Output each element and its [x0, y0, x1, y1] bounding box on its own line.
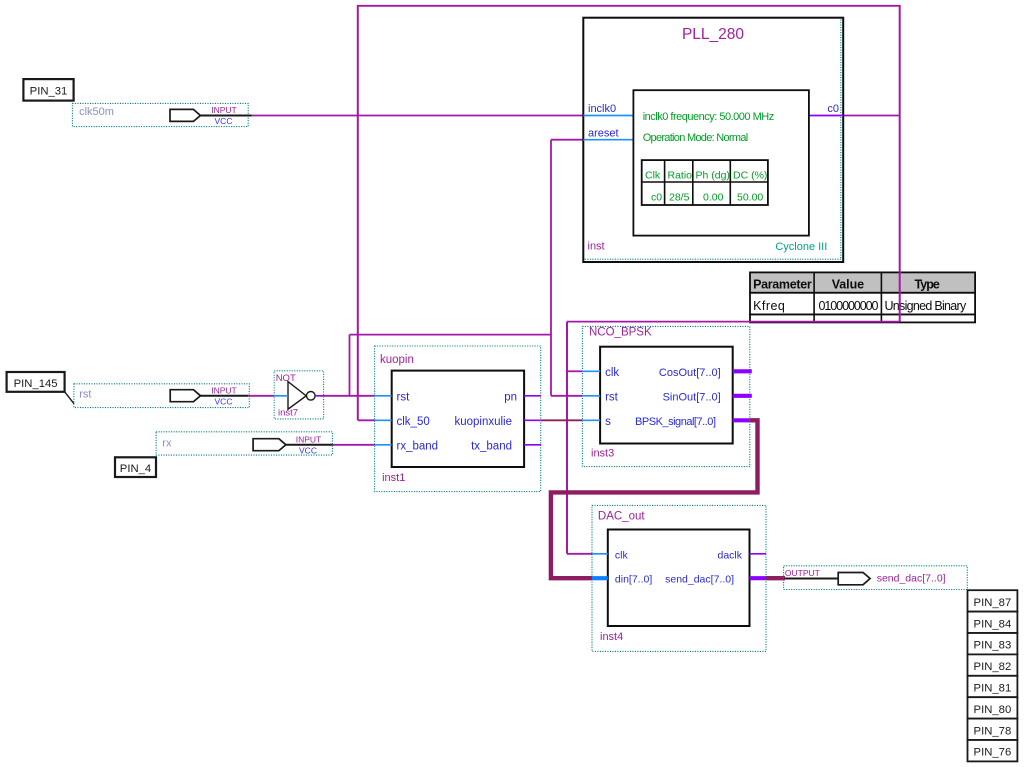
wire branch to DAC clk [567, 553, 592, 555]
svg-text:inclk0 frequency: 50.000 MHz: inclk0 frequency: 50.000 MHz [643, 111, 775, 123]
svg-text:Cyclone III: Cyclone III [775, 241, 827, 253]
wire kuopinxulie to NCO s [541, 419, 582, 421]
kuopin block U1 [380, 354, 524, 484]
svg-text:clk: clk [605, 367, 619, 379]
svg-text:inclk0: inclk0 [588, 103, 616, 115]
svg-text:Unsigned Binary: Unsigned Binary [885, 299, 967, 313]
svg-text:0100000000: 0100000000 [819, 299, 879, 313]
kuopin pin pn [524, 395, 541, 397]
kuopin pin tx_band [524, 444, 541, 446]
wire rst vertical to areset [550, 140, 552, 396]
kuopin pin rst [375, 395, 392, 397]
svg-text:s: s [605, 416, 611, 428]
PLL selection dotted edge [585, 20, 842, 260]
pin box PIN_81 [968, 676, 1018, 697]
NCO pin rst [582, 395, 600, 397]
svg-text:rst: rst [605, 391, 619, 403]
svg-text:50.00: 50.00 [737, 192, 763, 204]
svg-text:tx_band: tx_band [471, 440, 512, 452]
bus BPSK_signal to DAC din [551, 420, 758, 578]
svg-text:Parameter: Parameter [753, 277, 812, 291]
svg-text:OUTPUT: OUTPUT [785, 568, 820, 578]
svg-text:din[7..0]: din[7..0] [615, 574, 652, 586]
wire net c0 right vertical [899, 5, 901, 322]
svg-text:PIN_80: PIN_80 [974, 704, 1012, 716]
svg-text:inst: inst [588, 241, 605, 253]
input port rx [156, 432, 332, 456]
kuopin pin clk_50 [375, 419, 392, 421]
NOT gate U7 [276, 373, 315, 419]
wire rst branch horizontal [350, 334, 552, 336]
svg-text:Clk: Clk [645, 170, 661, 182]
svg-text:DC (%): DC (%) [733, 170, 767, 182]
NCO pin s [582, 419, 600, 421]
wire c0 clock vertical to DAC [566, 322, 568, 554]
svg-text:inst4: inst4 [600, 631, 623, 643]
svg-text:rst: rst [397, 391, 411, 403]
svg-text:PIN_83: PIN_83 [974, 640, 1012, 652]
wire branch to NCO clk [567, 370, 582, 372]
svg-text:28/5: 28/5 [669, 192, 690, 204]
svg-text:VCC: VCC [215, 396, 233, 406]
svg-text:Ratio: Ratio [668, 170, 693, 182]
svg-text:Ph (dg): Ph (dg) [696, 170, 730, 182]
svg-text:c0: c0 [827, 103, 839, 115]
pin box PIN_83 [968, 633, 1018, 654]
parameter table Kfreq [750, 272, 975, 322]
NCO pin CosOut[7..0] [733, 369, 752, 373]
pin box PIN_84 [968, 612, 1018, 633]
wire rx input net [332, 444, 374, 446]
svg-text:Value: Value [832, 277, 864, 291]
svg-text:CosOut[7..0]: CosOut[7..0] [659, 367, 721, 379]
PLL clock table [642, 160, 768, 205]
svg-text:SinOut[7..0]: SinOut[7..0] [663, 391, 721, 403]
kuopin pin kuopinxulie [524, 419, 541, 421]
svg-text:PIN_84: PIN_84 [974, 618, 1012, 630]
svg-text:PIN_82: PIN_82 [974, 661, 1012, 673]
svg-text:PIN_4: PIN_4 [120, 463, 151, 475]
svg-text:DAC_out: DAC_out [598, 510, 645, 522]
svg-text:inst1: inst1 [382, 472, 405, 484]
DAC_out selection box [592, 505, 766, 651]
svg-text:NCO_BPSK: NCO_BPSK [589, 327, 652, 339]
svg-text:send_dac[7..0]: send_dac[7..0] [877, 573, 946, 585]
NOT gate selection box [274, 371, 323, 419]
wire rst branch vertical [349, 335, 351, 396]
DAC pin din[7..0] [592, 576, 608, 580]
PLL pin inclk0 [583, 115, 633, 117]
wire rst input to NOT [248, 395, 274, 397]
svg-text:pn: pn [504, 391, 517, 403]
svg-text:BPSK_signal[7..0]: BPSK_signal[7..0] [635, 416, 716, 428]
svg-text:NOT: NOT [276, 373, 296, 384]
pin box PIN_80 [968, 697, 1018, 718]
pin box PIN_145 [7, 372, 74, 404]
svg-text:Kfreq: Kfreq [753, 299, 785, 313]
svg-text:VCC: VCC [299, 445, 317, 455]
svg-text:inst3: inst3 [591, 448, 614, 460]
output port send_dac [784, 566, 968, 590]
kuopin pin rx_band [375, 444, 392, 446]
PLL inner parameter box [633, 90, 809, 235]
svg-text:clk_50: clk_50 [397, 416, 430, 428]
kuopin block selection box [375, 346, 541, 492]
PLL pin areset [583, 139, 633, 141]
svg-text:Type: Type [915, 277, 940, 291]
pin box PIN_87 [968, 590, 1018, 611]
wire to PLL areset [551, 139, 583, 141]
svg-text:PIN_145: PIN_145 [14, 378, 58, 390]
svg-text:0.00: 0.00 [703, 192, 724, 204]
NCO pin SinOut[7..0] [733, 394, 752, 398]
svg-text:PIN_31: PIN_31 [30, 85, 68, 97]
svg-text:clk50m: clk50m [79, 106, 114, 118]
svg-text:Operation Mode: Normal: Operation Mode: Normal [643, 132, 749, 144]
svg-text:PIN_76: PIN_76 [974, 747, 1012, 759]
input port clk50m [72, 103, 251, 126]
svg-text:c0: c0 [651, 192, 662, 204]
pin box PIN_4 [115, 457, 156, 477]
input port rst [74, 384, 249, 408]
DAC_out block U4 [598, 510, 750, 643]
PLL pin c0 [809, 115, 843, 117]
wire net c0 top horizontal [358, 5, 900, 7]
pin box PIN_31 [23, 79, 73, 101]
bus send_dac to OUTPUT [766, 576, 785, 580]
wire c0 lower horizontal [567, 321, 900, 323]
svg-text:INPUT: INPUT [211, 105, 237, 115]
NOT input stub [274, 395, 288, 397]
NCO pin clk [582, 370, 600, 372]
svg-text:INPUT: INPUT [296, 435, 322, 445]
svg-text:INPUT: INPUT [211, 386, 237, 396]
wire to NCO rst [551, 395, 582, 397]
svg-text:rx_band: rx_band [397, 440, 439, 452]
svg-text:rst: rst [79, 388, 91, 400]
DAC pin daclk [750, 553, 767, 555]
svg-text:daclk: daclk [717, 549, 742, 561]
wire branch to kuopin clk_50 [358, 419, 375, 421]
svg-text:rx: rx [162, 437, 172, 449]
wire NOT output to kuopin rst [324, 395, 375, 397]
svg-text:VCC: VCC [215, 116, 233, 126]
DAC pin clk [592, 553, 608, 555]
pin box PIN_78 [968, 719, 1018, 740]
svg-text:PIN_87: PIN_87 [974, 597, 1012, 609]
pin box PIN_76 [968, 740, 1018, 761]
wire c0 output to vertical [843, 115, 900, 117]
svg-text:clk: clk [615, 549, 629, 561]
wire clk50m input net [252, 115, 584, 117]
svg-text:kuopinxulie: kuopinxulie [454, 416, 512, 428]
svg-text:PLL_280: PLL_280 [682, 26, 744, 43]
svg-text:inst7: inst7 [278, 408, 298, 419]
svg-text:PIN_81: PIN_81 [974, 683, 1012, 695]
svg-text:PIN_78: PIN_78 [974, 725, 1012, 737]
NCO_BPSK block U3 [589, 327, 733, 460]
PLL_280 block U-PLL [583, 18, 843, 262]
DAC pin send_dac[7..0] [750, 576, 767, 580]
svg-text:areset: areset [588, 127, 619, 139]
NCO_BPSK selection box [582, 326, 749, 466]
NCO pin BPSK_signal[7..0] [733, 418, 750, 422]
svg-text:kuopin: kuopin [380, 354, 414, 366]
pin box PIN_82 [968, 654, 1018, 675]
NOT output stub [315, 395, 324, 397]
svg-text:send_dac[7..0]: send_dac[7..0] [665, 574, 734, 586]
wire net c0 left vertical [357, 5, 359, 420]
